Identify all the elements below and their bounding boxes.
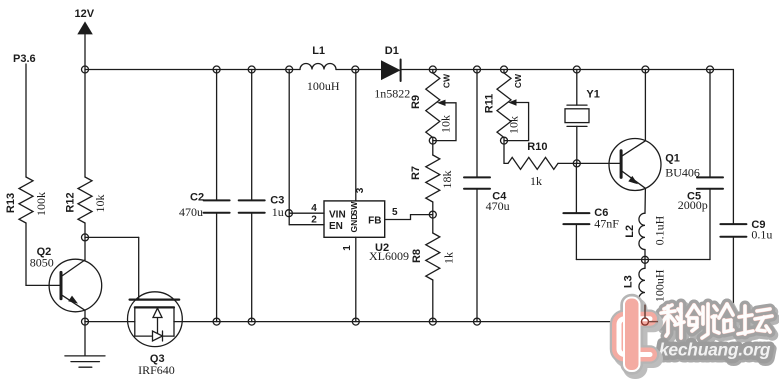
svg-text:1k: 1k — [442, 252, 456, 264]
svg-text:FB: FB — [368, 216, 381, 227]
svg-text:GND: GND — [349, 214, 359, 233]
svg-text:3: 3 — [355, 187, 366, 193]
svg-text:EN: EN — [329, 221, 343, 232]
svg-text:XL6009: XL6009 — [369, 249, 409, 263]
svg-text:D1: D1 — [385, 45, 399, 57]
svg-text:CW: CW — [513, 73, 523, 88]
svg-text:R13: R13 — [5, 193, 17, 213]
svg-text:SW: SW — [349, 201, 359, 216]
svg-text:R12: R12 — [65, 192, 77, 212]
svg-text:CW: CW — [442, 73, 452, 88]
svg-text:18k: 18k — [440, 171, 454, 189]
svg-text:5: 5 — [392, 207, 398, 218]
svg-text:L1: L1 — [312, 45, 325, 57]
svg-text:0.1uH: 0.1uH — [653, 215, 667, 245]
svg-text:R8: R8 — [411, 249, 423, 263]
svg-text:C2: C2 — [190, 192, 204, 204]
svg-text:P3.6: P3.6 — [13, 53, 36, 65]
svg-text:4: 4 — [311, 203, 317, 214]
svg-text:L2: L2 — [624, 225, 636, 238]
svg-text:BU406: BU406 — [665, 166, 700, 180]
svg-text:12V: 12V — [75, 8, 95, 20]
svg-text:10k: 10k — [93, 195, 107, 213]
svg-text:1u: 1u — [272, 205, 284, 219]
svg-text:R7: R7 — [410, 166, 422, 180]
svg-text:100k: 100k — [34, 192, 48, 216]
svg-text:47nF: 47nF — [594, 217, 619, 231]
svg-text:VIN: VIN — [329, 210, 346, 221]
svg-text:Q1: Q1 — [665, 153, 680, 165]
svg-text:1n5822: 1n5822 — [374, 87, 410, 101]
svg-text:100uH: 100uH — [307, 79, 340, 93]
svg-text:L3: L3 — [623, 275, 635, 288]
svg-text:10k: 10k — [439, 115, 453, 133]
svg-text:470u: 470u — [486, 199, 510, 213]
svg-text:Y1: Y1 — [586, 89, 599, 101]
svg-text:1k: 1k — [530, 174, 542, 188]
svg-text:2: 2 — [311, 215, 317, 226]
svg-text:R9: R9 — [410, 95, 422, 109]
svg-text:2000p: 2000p — [678, 198, 708, 212]
svg-text:R11: R11 — [484, 94, 496, 114]
svg-text:8050: 8050 — [30, 256, 54, 270]
svg-text:100uH: 100uH — [653, 269, 667, 302]
svg-text:kechuang.org: kechuang.org — [659, 340, 771, 360]
svg-text:10k: 10k — [507, 116, 521, 134]
svg-text:1: 1 — [342, 245, 353, 251]
svg-text:IRF640: IRF640 — [138, 363, 175, 377]
svg-text:0.1u: 0.1u — [751, 228, 772, 242]
svg-text:R10: R10 — [527, 141, 547, 153]
svg-text:470u: 470u — [179, 205, 203, 219]
